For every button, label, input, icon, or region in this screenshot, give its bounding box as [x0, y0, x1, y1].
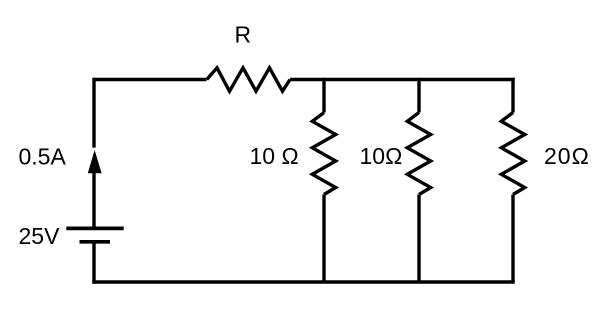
svg-text:25V: 25V [19, 223, 61, 249]
wire bottom rail [92, 280, 514, 283]
current arrow 0.5A [88, 150, 102, 173]
svg-text:R: R [235, 21, 252, 47]
resistor R1 10 ohm [312, 113, 335, 195]
wire branch 2 top [417, 78, 420, 113]
wire branch 2 bottom [417, 195, 420, 283]
wire branch 3 top [511, 78, 514, 113]
wire branch 3 bottom [511, 195, 514, 283]
wire branch 1 top [322, 78, 325, 113]
wire battery to bottom rail [92, 242, 95, 284]
wire left rail upper [92, 78, 95, 148]
battery V1 plate short [80, 240, 111, 244]
resistor R3 20 ohm [501, 113, 524, 195]
wire R to parallel branches (top rail) [290, 78, 515, 81]
wire top-left to R [94, 78, 207, 81]
svg-text:20Ω: 20Ω [544, 143, 590, 169]
svg-text:10Ω: 10Ω [360, 143, 403, 169]
resistor R2 10 ohm [407, 113, 430, 195]
svg-text:10 Ω: 10 Ω [250, 143, 299, 169]
resistor R [207, 68, 290, 91]
wire arrow to battery [92, 173, 95, 227]
wire branch 1 bottom [322, 195, 325, 283]
battery V1 plate long [66, 227, 123, 231]
svg-text:0.5A: 0.5A [19, 144, 67, 170]
